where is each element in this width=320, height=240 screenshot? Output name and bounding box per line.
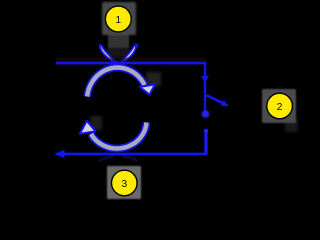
callout circle 3 [112, 170, 138, 196]
big arrowhead of bottom ribbon [80, 121, 96, 134]
svg-text:2: 2 [277, 101, 283, 113]
label 2 halo [262, 89, 296, 123]
current arrow left on bottom wire [54, 150, 65, 158]
wire: right vertical (switch feed) [204, 62, 206, 112]
switch bottom contact wire [204, 130, 207, 155]
switch lever (opening) [207, 95, 224, 103]
callout circle 1 [105, 6, 131, 32]
field loop upper-left arc (top wire) [100, 45, 116, 62]
artifact blob near top arrowhead [146, 72, 161, 86]
wire: bottom conductor [57, 153, 206, 156]
switch lever arrowhead [221, 100, 229, 106]
svg-text:3: 3 [121, 178, 127, 190]
big arrowhead of top ribbon [140, 84, 155, 94]
field loop big ribbon below top wire [87, 68, 155, 97]
label 1 halo [102, 2, 136, 58]
field loop lower-right dark arc (bottom wire) [123, 157, 138, 161]
field loop lower-left dark arc (bottom wire) [99, 157, 114, 161]
wire: top conductor shadow [56, 58, 205, 62]
svg-text:1: 1 [115, 14, 121, 26]
artifact blob near bottom arrowhead [90, 116, 102, 130]
current arrow down on right wire [201, 76, 209, 83]
switch top contact dot [201, 109, 210, 118]
label 3 halo [107, 166, 141, 199]
wire: top conductor [56, 62, 205, 65]
callout circle 2 [267, 93, 293, 119]
field loop big ribbon above bottom wire [80, 121, 147, 149]
field loop upper-right arc with arrowhead (top wire) [121, 43, 139, 62]
